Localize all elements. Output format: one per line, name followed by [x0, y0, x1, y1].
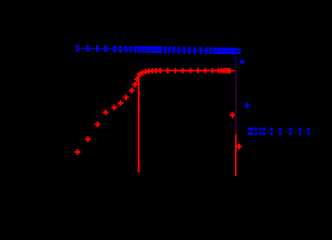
red plateau pt x=229.8 — [227, 70, 232, 72]
blue bottom marker x=260.3 — [259, 128, 262, 130]
blue marker x=87.8 — [86, 45, 89, 47]
blue marker x=114.3 — [113, 46, 116, 48]
blue marker x=232.4 — [231, 48, 234, 50]
red point (120.4,103.1) — [118, 102, 124, 104]
red drop pt 1 — [230, 114, 236, 116]
blue marker x=155.3 — [154, 46, 157, 48]
blue marker x=184.1 — [183, 47, 186, 49]
blue bottom line — [246, 130, 309, 132]
blue marker x=237.6 — [236, 49, 238, 51]
blue marker x=229.5 — [228, 48, 231, 50]
blue marker x=160.8 — [159, 46, 162, 48]
blue bottom marker x=249.3 — [248, 128, 251, 130]
blue marker x=210.9 — [209, 47, 212, 49]
blue marker x=218.2 — [217, 47, 220, 49]
blue marker x=179.0 — [178, 47, 181, 49]
red point (77.6,152.0) — [75, 151, 81, 153]
blue marker x=169.6 — [168, 47, 171, 49]
red point (97.5,124.3) — [95, 123, 101, 125]
blue marker x=200.8 — [199, 47, 202, 49]
blue drop line (dim) — [235, 52, 237, 71]
red drop line bright segment — [235, 135, 237, 177]
overlap drop line (purple) — [235, 71, 237, 132]
blue marker x=231.0 — [230, 48, 233, 50]
red plateau pt x=228.0 — [225, 70, 230, 72]
blue marker x=225.8 — [224, 48, 227, 50]
blue marker x=227.8 — [226, 48, 229, 50]
blue marker x=126.1 — [125, 46, 128, 48]
red left vertical line — [138, 75, 140, 173]
blue marker x=130.9 — [129, 46, 132, 48]
blue drop point 2 — [244, 104, 249, 106]
red point (114.2,107.4) — [111, 106, 117, 108]
red plateau pt x=148.9 — [146, 70, 151, 72]
red point (105.7,112.3) — [103, 111, 109, 113]
red plateau pt x=221.3 — [219, 70, 224, 72]
blue bottom marker x=308.4 — [307, 128, 310, 130]
blue marker x=234.9 — [233, 48, 236, 50]
red plateau pt x=175.3 — [173, 70, 178, 72]
red plateau pt x=226.0 — [223, 70, 228, 72]
blue marker x=173.9 — [172, 47, 175, 49]
red plateau pt x=167.6 — [165, 70, 170, 72]
blue marker x=224.0 — [223, 48, 226, 50]
blue bottom marker x=255.9 — [255, 128, 258, 130]
blue bottom marker x=251.7 — [250, 128, 253, 130]
red point (131.8,90.4) — [129, 89, 135, 91]
red point (126.1,97.4) — [123, 96, 129, 98]
stray blue dot on drop — [241, 89, 242, 90]
red plateau pt x=218.5 — [216, 70, 221, 72]
blue marker x=97.4 — [96, 45, 99, 47]
blue marker x=139.1 — [138, 46, 141, 48]
blue drop point 1 — [240, 61, 245, 63]
red plateau pt x=205.3 — [203, 70, 208, 72]
blue series line (plateau) — [77, 48, 235, 51]
blue marker x=120.4 — [119, 46, 122, 48]
blue marker x=221.0 — [220, 48, 223, 50]
blue marker x=142.7 — [141, 46, 144, 48]
red drop pt 2 — [236, 146, 242, 148]
red point (134.8,84.5) — [132, 84, 138, 86]
blue bottom marker x=271.5 — [270, 128, 273, 130]
red point (87.8,139.1) — [85, 138, 91, 140]
blue bottom marker x=264.2 — [263, 128, 266, 130]
blue marker x=206.3 — [205, 47, 208, 49]
blue marker x=194.9 — [193, 47, 196, 49]
blue marker x=146.3 — [145, 46, 148, 48]
blue bottom marker x=280.2 — [279, 128, 282, 130]
red plateau pt x=152.4 — [150, 70, 155, 72]
blue marker x=233.7 — [232, 48, 235, 50]
blue bottom marker x=300.0 — [299, 128, 302, 130]
blue marker x=135.5 — [134, 46, 137, 48]
red plateau pt x=139.8 — [137, 73, 142, 75]
red plateau pt x=223.8 — [221, 70, 226, 72]
blue bottom marker x=290.2 — [289, 128, 292, 130]
red drop line dim segment — [235, 131, 237, 134]
red series line (staircase+plateau) — [139, 71, 236, 75]
red plateau pt x=190.5 — [188, 70, 193, 72]
blue marker x=158.1 — [157, 46, 160, 48]
blue marker x=105.7 — [104, 45, 107, 47]
blue marker x=165.1 — [164, 47, 167, 49]
blue marker x=239.9 — [239, 49, 241, 51]
red plateau pt x=212.4 — [210, 70, 215, 72]
red plateau pt x=145.6 — [143, 71, 148, 73]
blue marker x=189.4 — [188, 47, 191, 49]
red plateau pt x=142.6 — [140, 72, 145, 74]
red plateau pt x=156.2 — [154, 70, 159, 72]
red plateau pt x=160.2 — [158, 70, 163, 72]
blue marker x=77.5 — [76, 45, 79, 47]
blue marker x=152.3 — [151, 46, 154, 48]
blue marker x=214.7 — [213, 47, 216, 49]
red plateau pt x=197.9 — [195, 70, 200, 72]
red point (137.0,79.3) — [134, 78, 140, 80]
blue marker x=149.4 — [148, 46, 151, 48]
red plateau pt x=182.7 — [180, 70, 185, 72]
